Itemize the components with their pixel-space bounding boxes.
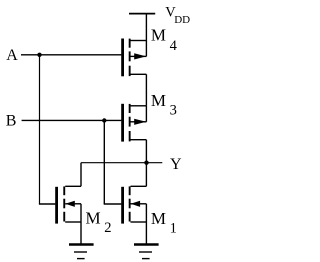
svg-text:M: M <box>151 26 166 45</box>
label M4 <box>151 26 178 54</box>
node: junction dot on A wire <box>37 53 41 57</box>
transistor M1 (NMOS) <box>121 186 146 223</box>
label B <box>6 113 17 130</box>
svg-text:B: B <box>6 113 17 130</box>
power VDD rail bar <box>129 13 155 15</box>
ground (left) <box>69 245 94 259</box>
label A <box>6 47 18 64</box>
wire: node Y down to M1 drain <box>145 163 147 187</box>
svg-text:2: 2 <box>104 220 111 236</box>
svg-text:4: 4 <box>170 38 178 54</box>
wire: input B horizontal to M3 gate <box>22 119 122 121</box>
wire: M2 source down to ground <box>80 222 82 244</box>
transistor M3 (PMOS) <box>121 104 146 142</box>
wire: A vertical down to M2 gate <box>39 55 41 204</box>
svg-text:3: 3 <box>170 102 177 118</box>
transistor M4 (PMOS) <box>121 39 146 77</box>
wire: M3 source down to node Y <box>145 140 147 163</box>
node: junction dot on B wire <box>102 118 106 122</box>
ground (right) <box>134 245 159 259</box>
wire: M1 source down to ground <box>145 222 147 244</box>
label M2 <box>86 209 112 237</box>
wire: M1 gate stub <box>104 203 122 205</box>
svg-text:1: 1 <box>170 220 177 236</box>
label Y <box>170 156 182 173</box>
svg-text:DD: DD <box>174 14 190 26</box>
svg-text:Y: Y <box>170 156 182 173</box>
svg-text:M: M <box>151 209 166 228</box>
wire: M2 gate stub <box>39 203 56 205</box>
svg-text:M: M <box>151 91 166 110</box>
wire: input A horizontal to M4 gate <box>21 54 121 56</box>
wire: M4 source down to M3 drain <box>145 74 147 106</box>
label M3 <box>151 91 177 119</box>
node Y junction dot <box>144 161 148 165</box>
wire: node Y down to M2 drain (left branch) <box>80 163 82 187</box>
svg-text:A: A <box>6 47 18 64</box>
label M1 <box>151 209 177 237</box>
svg-text:M: M <box>86 209 101 228</box>
label VDD <box>165 5 190 27</box>
wire: B vertical down to M1 gate <box>103 121 105 205</box>
transistor M2 (NMOS) <box>55 186 81 223</box>
wire: node Y horizontal <box>81 162 162 164</box>
wire: VDD down to M4 drain <box>145 14 147 41</box>
